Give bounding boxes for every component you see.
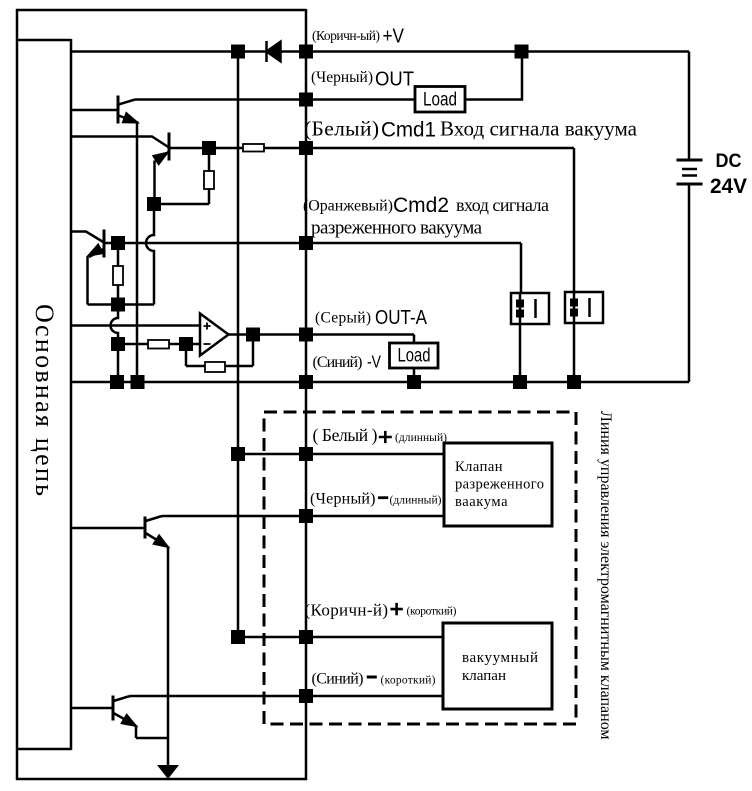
node junction +V / load return: [515, 45, 529, 59]
node junction Коричн+ x238: [231, 630, 245, 644]
wire left border: [16, 9, 19, 780]
node junction OUT-A / bus: [299, 328, 313, 342]
wire Q2 emitter down (with hop over Cmd2): [146, 161, 155, 305]
wire bottom border: [16, 778, 307, 781]
svg-text:(Серый): (Серый): [315, 310, 371, 327]
wire S2 to -V: [573, 323, 576, 382]
switch box S2: [565, 292, 603, 323]
node junction Cmd2 / R3: [111, 236, 125, 250]
battery B1 DC 24V: [677, 52, 748, 383]
svg-text:(Черный): (Черный): [311, 69, 373, 86]
label (Оранжевый) Cmd2: [303, 193, 549, 239]
label (Серый) OUT-A: [315, 307, 428, 329]
label (Коричн-й) + (короткий): [305, 601, 457, 620]
wire Черный- line: [162, 515, 444, 518]
wire op-amp noninverting input: [71, 324, 200, 327]
svg-text:ваакума: ваакума: [455, 494, 508, 510]
svg-text:(короткий): (короткий): [381, 675, 436, 687]
wire Синий- line: [130, 695, 443, 698]
op-amp U1: [200, 314, 229, 356]
valve box vacuum valve: [443, 623, 552, 709]
svg-text:DC: DC: [716, 151, 742, 172]
wire OUT line: [135, 52, 522, 100]
svg-text:(Белый): (Белый): [304, 117, 379, 141]
resistor R3 vertical: [113, 243, 123, 305]
node junction Белый+ bus: [299, 447, 313, 461]
wire top border: [16, 9, 306, 12]
wire op-amp inverting input: [118, 343, 200, 346]
wire Load2 to -V: [413, 368, 416, 382]
label ( Белый )+ (длинный): [313, 425, 448, 445]
label (Синий) - (короткий): [312, 671, 436, 688]
svg-text:( Белый ): ( Белый ): [313, 425, 378, 445]
node junction inv input left: [111, 337, 125, 351]
transistor Q3: [71, 230, 104, 258]
svg-text:OUT: OUT: [375, 69, 414, 91]
node junction Синий- bus: [299, 689, 313, 703]
wire +V feed bus x238: [237, 52, 240, 638]
svg-text:Линия управления электромагнит: Линия управления электромагнитным клапан…: [597, 411, 614, 740]
svg-text:разреженного: разреженного: [455, 477, 544, 493]
svg-text:Вход сигнала вакуума: Вход сигнала вакуума: [440, 117, 638, 141]
wire main vertical bus: [305, 9, 308, 780]
resistor R5 feedback: [186, 335, 253, 373]
transistor Q2: [71, 133, 169, 165]
node junction -V x137: [131, 375, 145, 389]
node junction OUT / bus: [299, 93, 313, 107]
svg-text:(длинный): (длинный): [390, 495, 442, 507]
svg-text:(Синий): (Синий): [313, 354, 363, 371]
svg-text:разреженного вакуума: разреженного вакуума: [311, 218, 483, 239]
dashed box solenoid control: [264, 412, 576, 724]
wire +V line: [71, 50, 689, 53]
svg-text:OUT-A: OUT-A: [375, 307, 428, 329]
node junction -V x118: [110, 375, 124, 389]
svg-text:вход сигнала: вход сигнала: [456, 195, 549, 215]
node junction -V switch2: [567, 375, 581, 389]
svg-text:(Синий): (Синий): [312, 671, 364, 688]
wire Q1 emitter down: [136, 121, 139, 382]
svg-text:клапан: клапан: [462, 668, 506, 684]
resistor R2 vertical: [154, 148, 214, 204]
node junction -V switch1: [513, 375, 527, 389]
svg-text:Load: Load: [398, 346, 431, 367]
node junction R3 bottom: [111, 298, 125, 312]
node junction Cmd2 / bus: [299, 236, 313, 250]
transistor Q5: [71, 696, 137, 727]
svg-text:(Черный): (Черный): [310, 491, 376, 508]
node junction Коричн+ bus: [299, 630, 313, 644]
svg-text:(короткий): (короткий): [407, 606, 457, 618]
svg-text:Cmd1: Cmd1: [381, 118, 436, 142]
wire Q3 emitter down: [88, 257, 155, 305]
wire OUT-A line: [229, 335, 415, 344]
node junction Белый+ x238: [231, 447, 245, 461]
node junction +V / bus: [299, 45, 313, 59]
svg-text:(Коричн-ый): (Коричн-ый): [312, 28, 380, 43]
resistor R1 on Cmd1: [243, 144, 264, 152]
svg-text:Клапан: Клапан: [455, 459, 503, 475]
wire Cmd2 line: [104, 243, 521, 293]
node junction inv input right: [179, 337, 193, 351]
wire x118 down (with hop over op-amp + input): [111, 305, 118, 383]
node junction Q2 emitter: [147, 197, 161, 211]
diode D1: [267, 41, 281, 62]
node junction -V bus: [299, 375, 313, 389]
wire Q5 emitter path: [136, 725, 168, 738]
label (Черный) OUT: [311, 69, 414, 91]
label (Черный)- (длинный): [310, 491, 442, 508]
node junction Cmd1 / R loop: [202, 141, 216, 155]
ground arrow: [157, 765, 179, 779]
label (Белый) Cmd1: [304, 117, 638, 142]
node junction -V Load2: [407, 375, 421, 389]
wire Коричн+ line: [238, 636, 443, 639]
wire Q4 emitter down: [167, 546, 170, 767]
valve box vacuum release valve: [444, 443, 552, 526]
wire Белый+ line: [238, 453, 444, 456]
svg-text:(Коричн-й): (Коричн-й): [305, 601, 389, 620]
node junction OUT-A / feedback: [246, 328, 260, 342]
wire -V rail: [71, 381, 689, 384]
wire Cmd1 line: [169, 148, 574, 292]
svg-text:вакуумный: вакуумный: [462, 650, 538, 666]
svg-text:-V: -V: [367, 352, 381, 372]
transistor Q1: [71, 96, 138, 124]
svg-text:(Оранжевый): (Оранжевый): [303, 198, 393, 215]
svg-text:24V: 24V: [710, 175, 747, 198]
label (Коричн-ый) +V: [312, 26, 405, 48]
resistor R4: [148, 340, 169, 349]
label (Синий) -V: [313, 352, 382, 372]
main circuit box Основная цепь: [16, 39, 71, 750]
svg-text:Cmd2: Cmd2: [393, 193, 449, 217]
wire S1 to -V: [519, 324, 522, 382]
node junction Cmd1 / bus: [299, 141, 313, 155]
load box Load1: [415, 87, 465, 113]
node junction +V / x238: [231, 45, 245, 59]
load box Load2: [390, 343, 439, 368]
node junction Черный- bus: [299, 509, 313, 523]
switch box S1: [511, 293, 549, 324]
svg-text:(длинный): (длинный): [395, 432, 447, 444]
svg-text:Load: Load: [423, 90, 457, 111]
svg-text:+V: +V: [383, 26, 405, 48]
transistor Q4: [71, 516, 169, 547]
